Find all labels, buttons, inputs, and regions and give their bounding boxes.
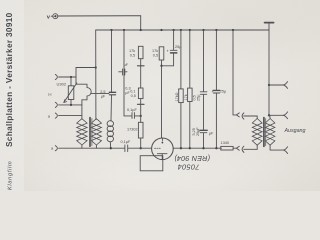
node dot K mid bbox=[268, 114, 270, 116]
resistor R4 anode 17k bbox=[152, 47, 164, 60]
wire jog up to node A bbox=[76, 68, 96, 78]
plus supply terminal bbox=[47, 14, 58, 21]
node dot R5a bottom bbox=[180, 147, 182, 149]
wire secondary top to K bbox=[269, 115, 271, 118]
wire R1 to R2 bbox=[140, 59, 142, 88]
input transformer T1 secondary winding bbox=[91, 119, 101, 145]
wire: HT bus bbox=[96, 29, 269, 31]
jack R2 bbox=[283, 112, 287, 119]
wire J3 to primary top bbox=[59, 115, 82, 117]
capacitor stack column H bbox=[192, 30, 214, 148]
choke coil L1 (loops) bbox=[107, 95, 113, 148]
T1 core bbox=[90, 118, 92, 147]
jack J3 bbox=[55, 113, 57, 118]
output transformer T2 secondary bbox=[265, 119, 275, 146]
node dot pot bottom bbox=[70, 104, 72, 106]
connector pair bottom bbox=[236, 146, 257, 152]
jack J1 input bbox=[55, 74, 57, 79]
wire to jack R1 bbox=[269, 84, 283, 86]
node dot pot top bbox=[70, 76, 72, 78]
electrolytic cap 25u on F column bbox=[162, 30, 183, 66]
T1 secondary bottom stub bbox=[95, 145, 97, 148]
wire anode column bbox=[161, 60, 163, 138]
node A dot on column bbox=[95, 66, 97, 68]
coupling capacitor 0,1uF grid series bbox=[121, 140, 131, 152]
wire: supply top bbox=[58, 16, 141, 30]
wire secondary bottom to jack R3 bbox=[270, 145, 283, 150]
node dot grid line / R3 bbox=[140, 147, 142, 149]
heater box under tube bbox=[140, 156, 163, 171]
wire column K (bus right end down) bbox=[268, 30, 270, 115]
cap tick 2 on column D bbox=[138, 103, 145, 105]
resistor R5b 17k bbox=[184, 30, 197, 148]
anode line right of tube bbox=[173, 147, 221, 149]
wire column C bbox=[124, 30, 132, 116]
node dot K top jack bbox=[268, 84, 270, 86]
potentiometer U302 bbox=[57, 77, 77, 105]
cap tick on column D bbox=[138, 65, 145, 67]
wire R3 to grid line bbox=[140, 138, 142, 148]
jack J4 bbox=[55, 146, 57, 151]
wire primary top bbox=[256, 116, 258, 119]
node dot anode/cap bbox=[160, 65, 162, 67]
wire to jack R2 bbox=[269, 114, 283, 116]
tube V1 REN904 bbox=[152, 138, 174, 160]
node dot column I bottom bbox=[215, 147, 217, 149]
output transformer T2 primary bbox=[252, 119, 262, 146]
wire grid line to tube bbox=[128, 147, 151, 149]
node dot column H bottom bbox=[202, 147, 204, 149]
jack R1 bbox=[283, 82, 287, 89]
node dot C/D junction bbox=[140, 115, 142, 117]
terminal T-bar right end bbox=[265, 23, 274, 30]
series capacitor on column C bbox=[119, 63, 129, 75]
resistor R1 17k bbox=[129, 46, 143, 58]
wire J2 junction down to primary bbox=[81, 105, 83, 119]
connector pair top bbox=[236, 113, 257, 119]
wire J2 bbox=[59, 104, 82, 106]
node dot L1/grid wire bbox=[110, 147, 112, 149]
resistor R2 50k bbox=[130, 88, 143, 99]
jack R3 bbox=[283, 147, 287, 154]
wire column B upper bbox=[111, 30, 113, 92]
wire J4 grid line left bbox=[59, 147, 125, 149]
wire column A (bus to transformer) bbox=[95, 30, 97, 119]
resistor R5a 17k bbox=[175, 30, 183, 148]
T1 primary bottom stub bbox=[81, 145, 83, 148]
capacitor 0,1uF coupling (C to D) bbox=[127, 108, 141, 119]
electrolytic cap 25u column I bbox=[211, 30, 227, 148]
wire column J to plug top bbox=[233, 30, 236, 115]
wire with hop (crossover) bbox=[76, 77, 91, 105]
wire hop branch to cap bbox=[91, 93, 109, 95]
sidebar title: Klangfilm Schallplatten-Verstärker 30910 (rotated) bbox=[5, 12, 14, 190]
resistor R3 grid leak 17302 bbox=[127, 122, 143, 138]
wire R6 to plug bbox=[233, 147, 236, 149]
wire primary bottom bbox=[256, 145, 258, 149]
capacitor 2,5uF bbox=[100, 90, 116, 99]
jack J2 bbox=[55, 102, 57, 107]
input transformer T1 primary winding bbox=[77, 119, 87, 145]
node dots on bus bbox=[110, 29, 234, 31]
wire J1 to jog bbox=[59, 76, 76, 78]
T2 core bbox=[264, 118, 266, 147]
wire R2 to junction bbox=[140, 99, 142, 123]
resistor R6 series output bbox=[221, 141, 234, 150]
paper background bbox=[0, 0, 320, 191]
node dot R5b bottom bbox=[189, 147, 191, 149]
